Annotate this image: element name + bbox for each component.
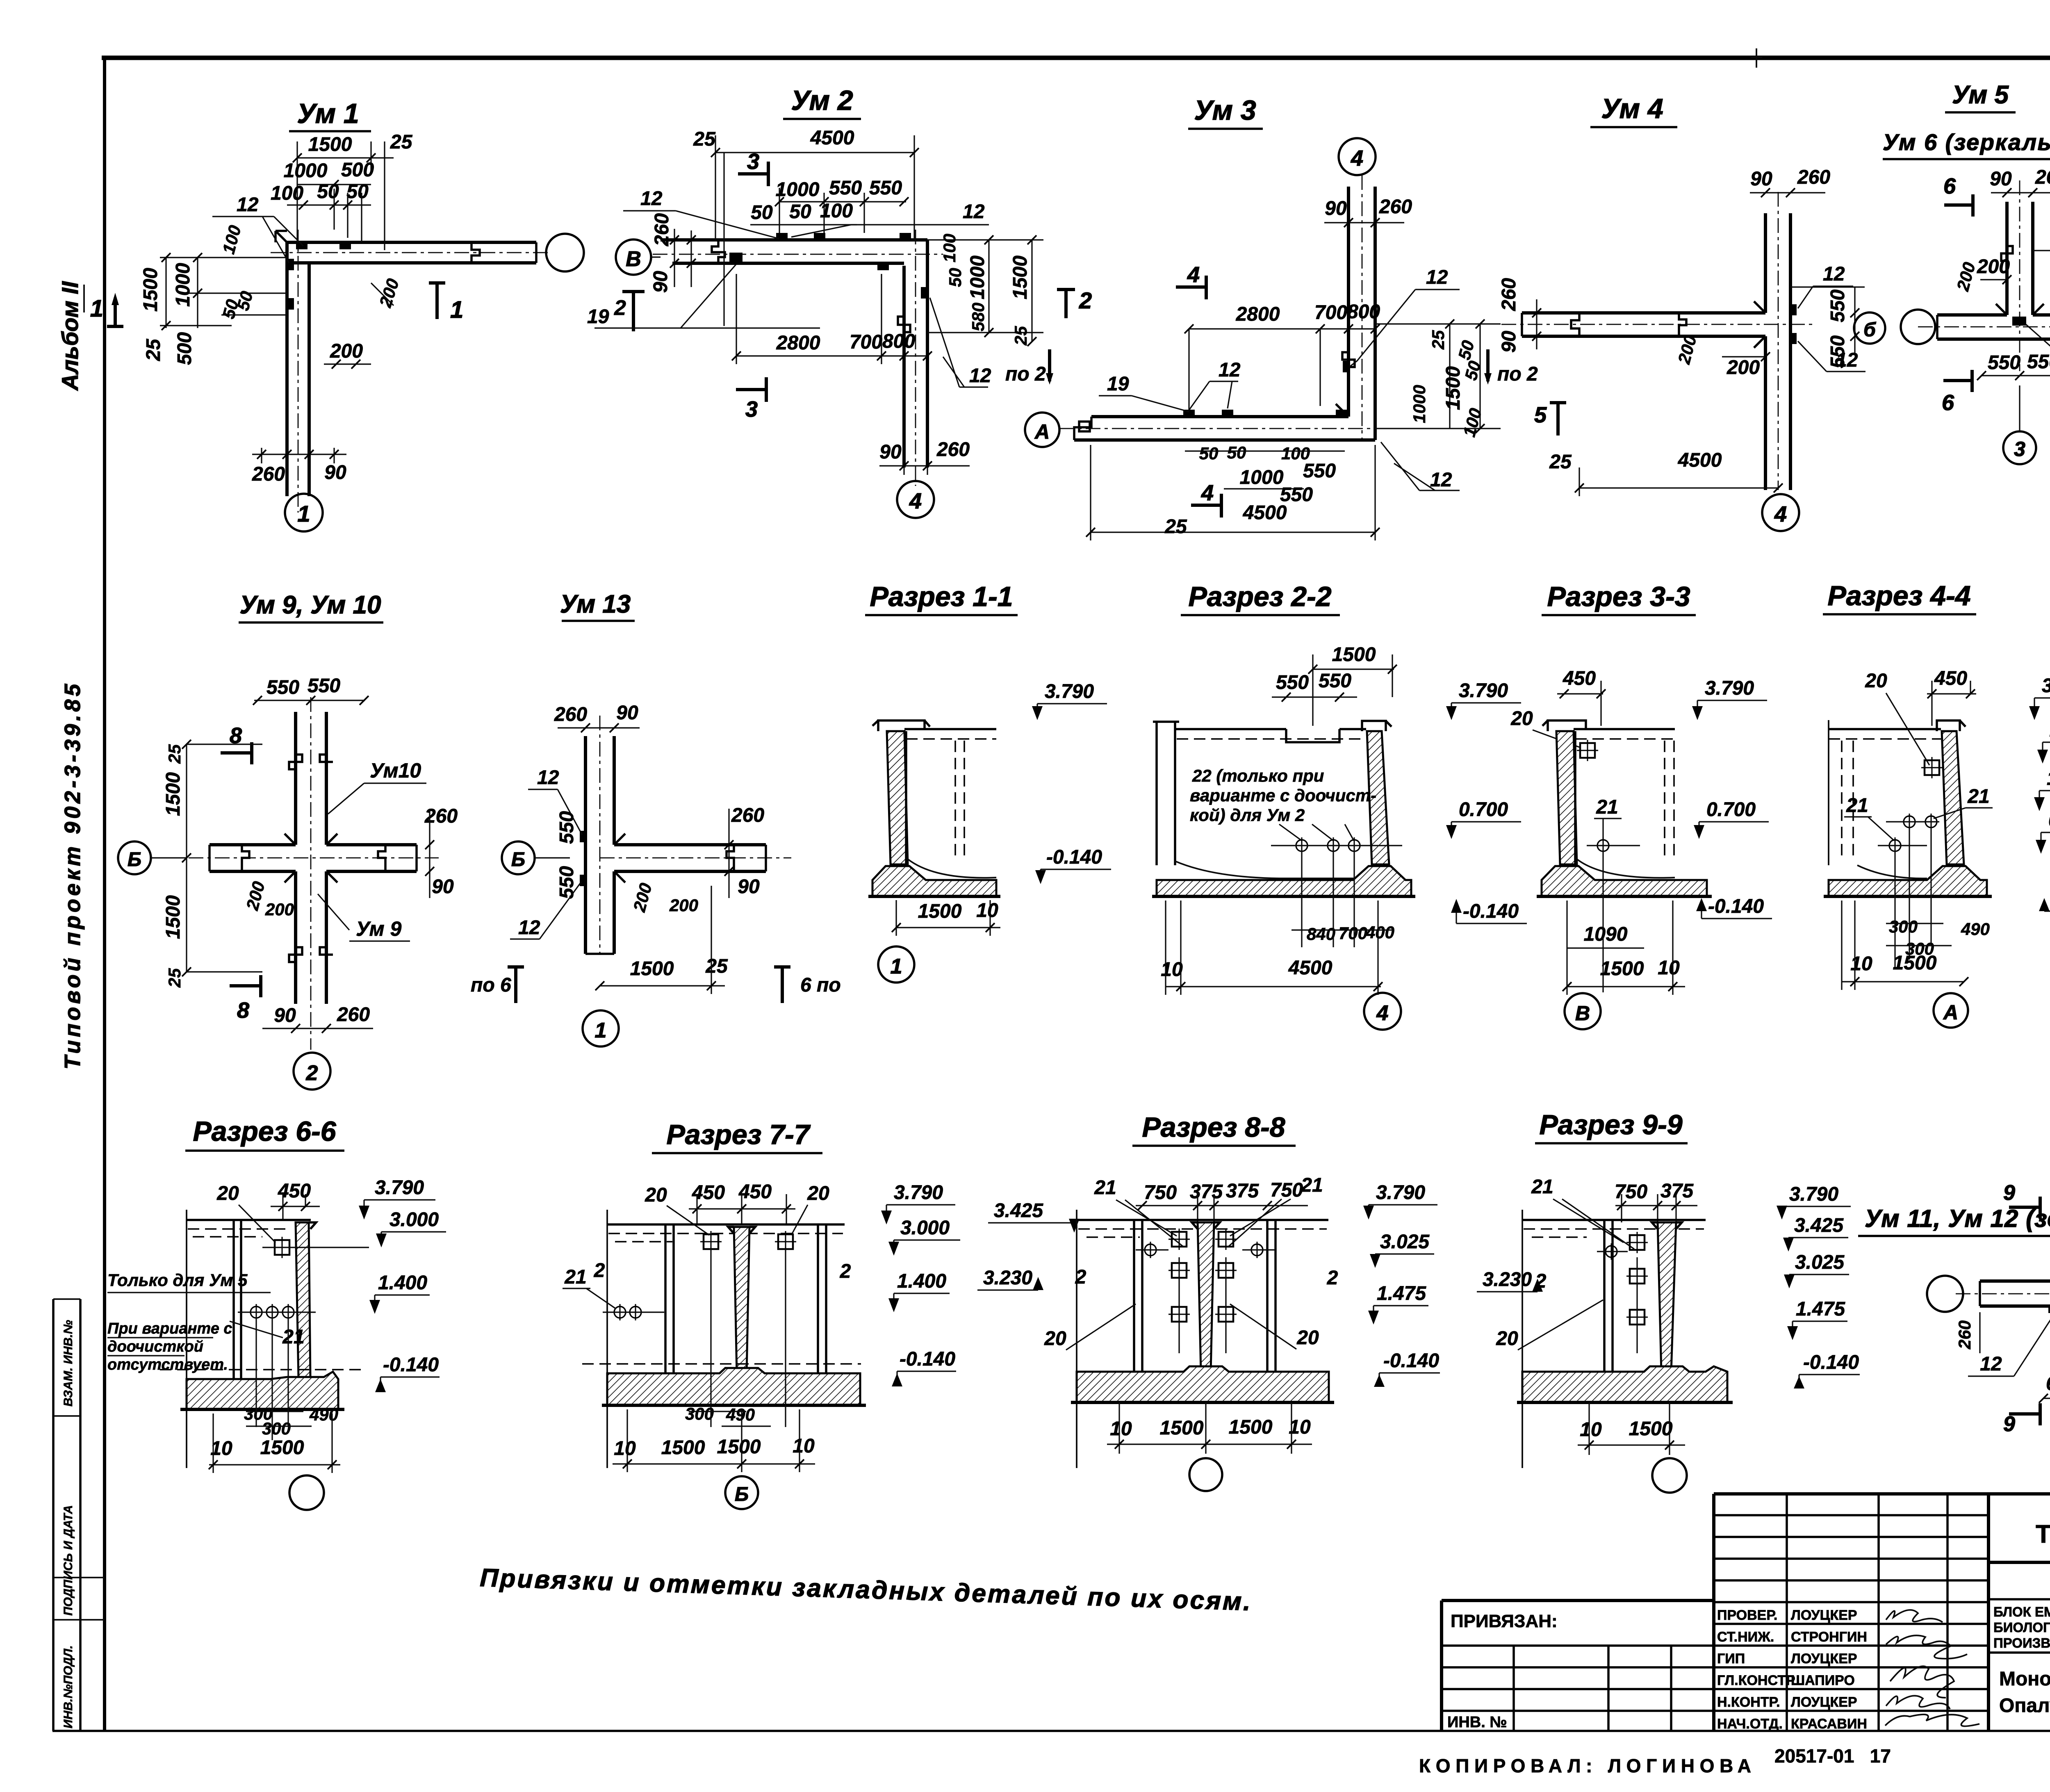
svg-text:-0.140: -0.140: [1383, 1350, 1439, 1372]
svg-text:3: 3: [747, 149, 759, 174]
svg-text:25: 25: [1164, 516, 1187, 538]
svg-text:90: 90: [432, 876, 454, 898]
far wall dashed: [955, 741, 964, 861]
svg-text:4: 4: [1774, 502, 1787, 527]
axis circle 4: [1762, 494, 1799, 531]
svg-text:50: 50: [1199, 444, 1219, 463]
svg-text:450: 450: [1563, 668, 1596, 689]
inner face line: [1574, 731, 1576, 864]
svg-text:10: 10: [614, 1438, 636, 1459]
joint notch on vertical wall: [1342, 352, 1355, 367]
main stamp outer box: [1988, 1492, 2050, 1496]
right rotated dim cluster: [927, 240, 1043, 342]
svg-text:550: 550: [1319, 670, 1351, 692]
anchor circles: [1901, 814, 1918, 830]
embedded plate at junction: [2012, 317, 2026, 326]
svg-text:В: В: [626, 247, 641, 271]
svg-text:1500: 1500: [308, 134, 352, 155]
interior bottom curve: [1857, 865, 1927, 878]
svg-text:580: 580: [968, 303, 988, 331]
top edge tick marks: [1751, 25, 2050, 72]
joint notch right arm: [727, 845, 734, 871]
svg-text:3.025: 3.025: [1795, 1252, 1845, 1273]
svg-text:25: 25: [165, 968, 184, 988]
svg-text:При варианте с: При варианте с: [107, 1320, 232, 1337]
svg-text:1000: 1000: [1240, 467, 1284, 488]
svg-text:3.790: 3.790: [1789, 1183, 1838, 1205]
svg-text:3.230: 3.230: [983, 1267, 1032, 1289]
svg-text:2: 2: [1075, 1266, 1086, 1288]
hatched right wall: [1367, 731, 1389, 864]
svg-text:12: 12: [537, 767, 559, 789]
svg-text:700: 700: [1339, 923, 1367, 943]
svg-text:90: 90: [1990, 168, 2012, 190]
svg-text:3.230: 3.230: [1483, 1269, 1532, 1290]
svg-text:21: 21: [1846, 795, 1868, 816]
left end cap: [1521, 313, 1523, 336]
svg-text:Ум 1: Ум 1: [297, 98, 359, 129]
svg-text:ТП 902-3-39.85: ТП 902-3-39.85: [2036, 1520, 2050, 1548]
vertical wall right face: [2031, 202, 2034, 315]
svg-text:А: А: [1034, 420, 1050, 443]
svg-text:50: 50: [1454, 338, 1478, 362]
svg-text:4500: 4500: [810, 127, 854, 149]
vertical centerline: [310, 697, 312, 1050]
svg-text:Разрез 6-6: Разрез 6-6: [193, 1116, 336, 1147]
svg-text:2: 2: [840, 1261, 851, 1282]
svg-text:Ум 13: Ум 13: [560, 590, 631, 618]
axis circle A: [1934, 993, 1968, 1028]
svg-text:ПРИВЯЗАН:: ПРИВЯЗАН:: [1451, 1611, 1558, 1631]
underline for II: [83, 285, 85, 312]
axis circle 4 bottom: [897, 481, 934, 518]
svg-text:50: 50: [317, 181, 339, 203]
rim top line: [1077, 1219, 1328, 1221]
horizontal wall top face: [210, 843, 417, 846]
svg-text:1500: 1500: [140, 268, 162, 312]
svg-text:1090: 1090: [1584, 923, 1628, 945]
svg-text:22 (только при: 22 (только при: [1192, 766, 1324, 785]
right rotated dims: [1375, 324, 1501, 429]
central hatched wall: [734, 1227, 749, 1373]
svg-text:ЛОУЦКЕР: ЛОУЦКЕР: [1791, 1607, 1857, 1623]
svg-text:90: 90: [879, 441, 902, 463]
svg-text:ИНВ.№ПОДЛ.: ИНВ.№ПОДЛ.: [61, 1645, 75, 1728]
bottom wall centerline: [1059, 428, 1402, 429]
corner notch: [276, 231, 287, 242]
base slab hatched: [1077, 1366, 1329, 1402]
svg-text:10: 10: [1110, 1418, 1132, 1440]
svg-text:25: 25: [1011, 326, 1030, 346]
svg-text:3.000: 3.000: [900, 1217, 950, 1239]
base slab hatched: [1829, 866, 1987, 896]
svg-text:12: 12: [963, 201, 985, 223]
vertical wall centerline: [1362, 175, 1363, 440]
svg-text:Ум 4: Ум 4: [1601, 93, 1663, 124]
svg-text:375: 375: [1226, 1180, 1259, 1202]
svg-text:21: 21: [1531, 1176, 1553, 1198]
svg-text:100: 100: [820, 200, 853, 222]
vertical wall left face upper: [294, 712, 297, 845]
svg-text:12: 12: [1980, 1353, 2002, 1375]
svg-text:ПРОИЗВОДИТЕЛЬНОСТЬЮ 400 м³/СУТ: ПРОИЗВОДИТЕЛЬНОСТЬЮ 400 м³/СУТКИ: [1993, 1635, 2050, 1651]
svg-text:800: 800: [1347, 301, 1380, 323]
axis circle unlabeled: [1652, 1458, 1687, 1493]
horizontal wall bottom face: [614, 870, 766, 873]
svg-text:1000: 1000: [172, 263, 194, 307]
svg-text:1500: 1500: [1160, 1417, 1204, 1439]
axis circle 3 bottom: [2003, 431, 2036, 464]
dashed level line: [160, 1369, 361, 1370]
interior bottom curve: [1577, 859, 1675, 878]
svg-text:1.400: 1.400: [2047, 768, 2050, 789]
svg-text:700: 700: [850, 331, 882, 353]
svg-text:Разрез 3-3: Разрез 3-3: [1547, 581, 1690, 612]
signatures squiggles: [1886, 1610, 1943, 1622]
base slab hatched: [607, 1368, 860, 1405]
svg-text:2800: 2800: [1236, 303, 1280, 325]
section marker 4 upper: [1176, 276, 1206, 299]
anchor circles row: [248, 1304, 264, 1320]
svg-text:20: 20: [1496, 1328, 1518, 1350]
svg-text:260: 260: [936, 439, 970, 461]
vertical wall centerline: [2019, 180, 2020, 371]
horizontal wall top face: [1522, 311, 1765, 315]
svg-text:Н.КОНТР.: Н.КОНТР.: [1717, 1694, 1780, 1710]
svg-text:4: 4: [1201, 481, 1214, 505]
svg-text:6: 6: [1942, 390, 1954, 415]
svg-text:12: 12: [1426, 267, 1448, 288]
svg-text:25: 25: [165, 744, 184, 764]
interior bottom curve: [908, 859, 996, 878]
rim top line: [1522, 1219, 1706, 1221]
svg-text:2: 2: [594, 1260, 605, 1281]
svg-text:1000: 1000: [776, 179, 820, 201]
svg-text:200: 200: [376, 276, 403, 310]
svg-text:200: 200: [629, 881, 656, 914]
left sidebar vertical rules: [53, 1299, 80, 1731]
svg-text:-0.140: -0.140: [1046, 846, 1102, 868]
svg-text:550: 550: [556, 866, 578, 899]
rim dashed line: [1829, 738, 1941, 740]
end caps: [1937, 315, 2050, 339]
base bottom line: [602, 1404, 866, 1407]
rim top line: [904, 728, 996, 730]
horizontal wall bottom face: [1937, 337, 2050, 341]
left wall double line: [1157, 722, 1175, 865]
svg-text:200: 200: [330, 340, 363, 362]
svg-text:Б: Б: [735, 1484, 749, 1505]
svg-text:550: 550: [556, 811, 578, 844]
empty row line: [1988, 1598, 2050, 1600]
svg-text:ПОДПИСЬ И ДАТА: ПОДПИСЬ И ДАТА: [61, 1505, 75, 1616]
left sidebar dividers: [53, 1299, 105, 1620]
svg-text:2: 2: [1079, 287, 1092, 313]
central wall top flares: [1192, 1222, 1220, 1229]
svg-text:Только для Ум 5: Только для Ум 5: [107, 1270, 248, 1290]
svg-text:2: 2: [1535, 1270, 1547, 1292]
sheet frame left border: [103, 56, 106, 1731]
vertical wall centerline: [915, 230, 916, 486]
svg-text:СТРОНГИН: СТРОНГИН: [1791, 1629, 1867, 1645]
embedded plates: [700, 1231, 722, 1252]
svg-text:12: 12: [1219, 359, 1241, 381]
svg-text:200: 200: [265, 900, 294, 919]
right wall top cap flare: [1362, 721, 1392, 731]
left boundary line: [1522, 1210, 1523, 1468]
svg-text:260: 260: [1498, 278, 1520, 311]
base slab hatched: [1157, 866, 1411, 896]
svg-text:12: 12: [518, 917, 540, 939]
svg-text:490: 490: [1961, 919, 1990, 939]
svg-text:650: 650: [2046, 1373, 2050, 1395]
left thin wall: [665, 1224, 674, 1373]
svg-text:ВЗАМ. ИНВ.№: ВЗАМ. ИНВ.№: [61, 1320, 75, 1407]
horizontal centerline: [1956, 1293, 2050, 1295]
wall horizontal bottom face: [287, 261, 536, 264]
horizontal centerline: [600, 857, 791, 859]
svg-text:ЛОУЦКЕР: ЛОУЦКЕР: [1791, 1651, 1857, 1667]
svg-text:Разрез 4-4: Разрез 4-4: [1827, 580, 1970, 611]
embedded plates right face: [1790, 304, 1797, 315]
svg-text:Привязки и отметки закладных д: Привязки и отметки закладных деталей по …: [480, 1564, 1251, 1616]
svg-text:500: 500: [174, 332, 196, 365]
axis circle left unlabeled: [1927, 1276, 1963, 1312]
svg-text:ИНВ. №: ИНВ. №: [1447, 1714, 1507, 1731]
axis circle 4: [1364, 993, 1401, 1030]
svg-text:-0.140: -0.140: [1708, 896, 1764, 917]
svg-text:по 2: по 2: [1497, 363, 1538, 385]
svg-text:260: 260: [651, 213, 673, 246]
svg-text:б: б: [1863, 319, 1876, 341]
svg-text:1000: 1000: [284, 160, 328, 182]
junction fillets: [285, 834, 337, 882]
sheet frame bottom border: [52, 1730, 2050, 1732]
joint notch upper: [289, 755, 333, 769]
central hatched wall: [1198, 1222, 1214, 1372]
hatched left wall: [887, 731, 908, 864]
section marker 3 bottom: [736, 377, 766, 402]
svg-text:4: 4: [1376, 1001, 1389, 1025]
vertical wall left face: [584, 736, 587, 954]
horizontal centerline: [189, 857, 439, 859]
junction fillets: [1996, 304, 2044, 315]
embedded plate on vertical wall: [921, 287, 927, 299]
rim dashed line: [608, 1233, 843, 1242]
embedded plate top: [1921, 757, 1943, 778]
axis circle unlabeled: [1189, 1458, 1222, 1491]
vertical wall right face: [613, 736, 616, 845]
base slab hatched: [1522, 1366, 1727, 1402]
svg-text:10: 10: [976, 900, 998, 921]
left boundary line: [1828, 720, 1829, 865]
svg-text:25: 25: [1428, 330, 1448, 350]
svg-text:по 2: по 2: [1005, 363, 1046, 385]
svg-text:КРАСАВИН: КРАСАВИН: [1791, 1716, 1867, 1732]
embedded plate top 1: [296, 242, 307, 249]
svg-text:21: 21: [1596, 796, 1618, 818]
svg-text:БИОЛОГИЧЕСКОЙ ОЧИСТКИ СТОЧНЫХ: БИОЛОГИЧЕСКОЙ ОЧИСТКИ СТОЧНЫХ ВОД: [1993, 1619, 2050, 1635]
svg-text:450: 450: [738, 1181, 772, 1203]
wall vertical right face: [307, 263, 311, 496]
svg-text:400: 400: [1365, 923, 1394, 942]
embedded plates column: [1626, 1232, 1648, 1253]
svg-text:260: 260: [1797, 166, 1830, 188]
vertical wall left face: [2005, 202, 2009, 315]
rim top line with notch: [1175, 729, 1366, 742]
svg-text:490: 490: [309, 1405, 338, 1424]
svg-text:3.425: 3.425: [994, 1200, 1043, 1222]
wall axis centerline vertical: [298, 230, 299, 513]
far wall dashed: [1665, 741, 1674, 861]
svg-text:0.700: 0.700: [1706, 799, 1756, 821]
svg-text:90: 90: [616, 702, 638, 724]
svg-text:100: 100: [940, 234, 959, 262]
svg-text:4500: 4500: [1678, 449, 1722, 471]
central table verticals: [1787, 1494, 1947, 1731]
hatched right wall: [1942, 731, 1964, 864]
svg-text:1.400: 1.400: [897, 1270, 946, 1292]
svg-text:375: 375: [1190, 1181, 1223, 1203]
anchor circles: [1603, 1243, 1619, 1260]
bottom wall left keyed cap: [1074, 417, 1091, 440]
axis circle right unlabeled: [546, 234, 584, 271]
svg-text:25: 25: [693, 128, 716, 150]
svg-text:1500: 1500: [918, 901, 962, 922]
svg-text:20: 20: [645, 1184, 667, 1206]
construction joint jog: [471, 242, 480, 263]
bottom wall bottom face: [1074, 438, 1375, 442]
svg-text:1500: 1500: [1009, 255, 1031, 299]
axis circle 4 top: [1339, 138, 1376, 175]
svg-text:3.790: 3.790: [375, 1177, 424, 1199]
svg-text:550: 550: [1988, 352, 2020, 374]
svg-text:21: 21: [1301, 1174, 1323, 1196]
sheet name cell divider: [1988, 1651, 2050, 1654]
svg-text:Ум10: Ум10: [370, 759, 421, 782]
svg-text:Ум 3: Ум 3: [1194, 95, 1256, 126]
svg-text:10: 10: [1161, 959, 1183, 980]
wall horizontal bottom face: [672, 262, 904, 265]
svg-text:50: 50: [1227, 443, 1246, 462]
svg-text:1.400: 1.400: [378, 1272, 427, 1294]
horizontal wall top face: [614, 843, 766, 846]
svg-text:500: 500: [341, 159, 374, 181]
svg-text:2800: 2800: [776, 332, 820, 354]
svg-text:2: 2: [1327, 1267, 1338, 1289]
anchor circles: [612, 1304, 628, 1320]
plate extension line: [1636, 1257, 1638, 1353]
svg-text:21: 21: [564, 1266, 586, 1288]
axis circle 1 bottom: [583, 1010, 619, 1046]
dashed level line: [582, 1363, 861, 1365]
svg-text:840: 840: [1307, 924, 1335, 944]
svg-text:20: 20: [216, 1183, 239, 1204]
horizontal wall bottom face: [1522, 335, 1765, 338]
left boundary line: [1076, 1210, 1077, 1468]
embedded plate on vertical wall: [1343, 361, 1349, 372]
axis circle unlabeled: [289, 1475, 324, 1510]
junction fillets: [1754, 301, 1765, 348]
rim top line: [1829, 728, 1941, 730]
svg-text:1500: 1500: [661, 1437, 705, 1459]
title block: privyazan table outline: [1442, 1600, 1714, 1731]
svg-text:50: 50: [1461, 359, 1484, 382]
left rotated dims 25 1500 1500 25: [187, 744, 262, 972]
svg-text:СТ.НИЖ.: СТ.НИЖ.: [1717, 1629, 1774, 1645]
svg-text:Разрез 9-9: Разрез 9-9: [1539, 1109, 1682, 1140]
svg-text:20: 20: [1510, 708, 1533, 730]
embedded plate left wall 2: [287, 298, 294, 310]
central table row lines: [1714, 1515, 1988, 1711]
svg-text:12: 12: [969, 365, 991, 387]
interior bottom curve: [1175, 861, 1372, 878]
svg-text:1.475: 1.475: [1796, 1298, 1845, 1320]
svg-text:Опалубочный чертеж.: Опалубочный чертеж.: [1999, 1695, 2050, 1717]
embedded plate with leader line: [271, 1237, 293, 1258]
vertical wall centerline: [1778, 192, 1779, 490]
svg-text:3.790: 3.790: [1376, 1182, 1425, 1204]
svg-text:0.700: 0.700: [1459, 799, 1508, 821]
svg-text:3.025: 3.025: [1380, 1231, 1430, 1253]
end caps: [210, 845, 417, 871]
svg-text:10: 10: [1850, 953, 1872, 975]
svg-text:12: 12: [1430, 469, 1452, 491]
base slab hatched: [872, 866, 996, 896]
svg-text:1500: 1500: [717, 1436, 761, 1458]
left thin wall: [1134, 1220, 1142, 1372]
svg-text:9: 9: [2003, 1181, 2015, 1205]
svg-text:Альбом II: Альбом II: [57, 281, 83, 391]
svg-text:10: 10: [1658, 957, 1680, 979]
svg-text:260: 260: [554, 704, 587, 725]
vertical wall upper right face: [1789, 213, 1792, 313]
wall axis centerline horizontal: [271, 252, 548, 253]
svg-text:1: 1: [90, 295, 103, 322]
svg-text:200: 200: [669, 896, 698, 915]
svg-text:8: 8: [237, 998, 249, 1023]
svg-text:1: 1: [595, 1019, 607, 1042]
right thin wall: [818, 1224, 826, 1373]
svg-text:ГИП: ГИП: [1717, 1651, 1745, 1667]
thin wall: [1604, 1220, 1613, 1372]
svg-text:Б: Б: [511, 849, 525, 871]
svg-text:200: 200: [1727, 357, 1760, 378]
svg-text:кой) для Ум 2: кой) для Ум 2: [1190, 805, 1305, 825]
svg-text:550: 550: [307, 675, 340, 697]
svg-text:-0.140: -0.140: [383, 1354, 439, 1376]
svg-text:6: 6: [1943, 174, 1956, 198]
axis circle B left: [616, 239, 651, 275]
svg-text:450: 450: [1934, 668, 1967, 689]
svg-text:750: 750: [1144, 1182, 1177, 1204]
svg-text:21: 21: [1094, 1177, 1116, 1199]
base slab hatched: [1542, 866, 1707, 896]
svg-text:50: 50: [346, 181, 369, 203]
left boundary line: [606, 1210, 608, 1468]
svg-text:90: 90: [1498, 331, 1520, 353]
svg-text:200: 200: [1674, 333, 1700, 366]
privyazan table rows: [1442, 1646, 1714, 1711]
svg-text:1500: 1500: [162, 895, 184, 939]
svg-text:0.700: 0.700: [2048, 809, 2050, 831]
svg-text:5: 5: [1534, 403, 1547, 427]
svg-text:700: 700: [1314, 302, 1347, 324]
axis circle V: [1565, 993, 1601, 1029]
svg-text:750: 750: [1615, 1181, 1647, 1203]
svg-text:800: 800: [882, 331, 915, 352]
svg-text:4500: 4500: [1288, 957, 1332, 979]
